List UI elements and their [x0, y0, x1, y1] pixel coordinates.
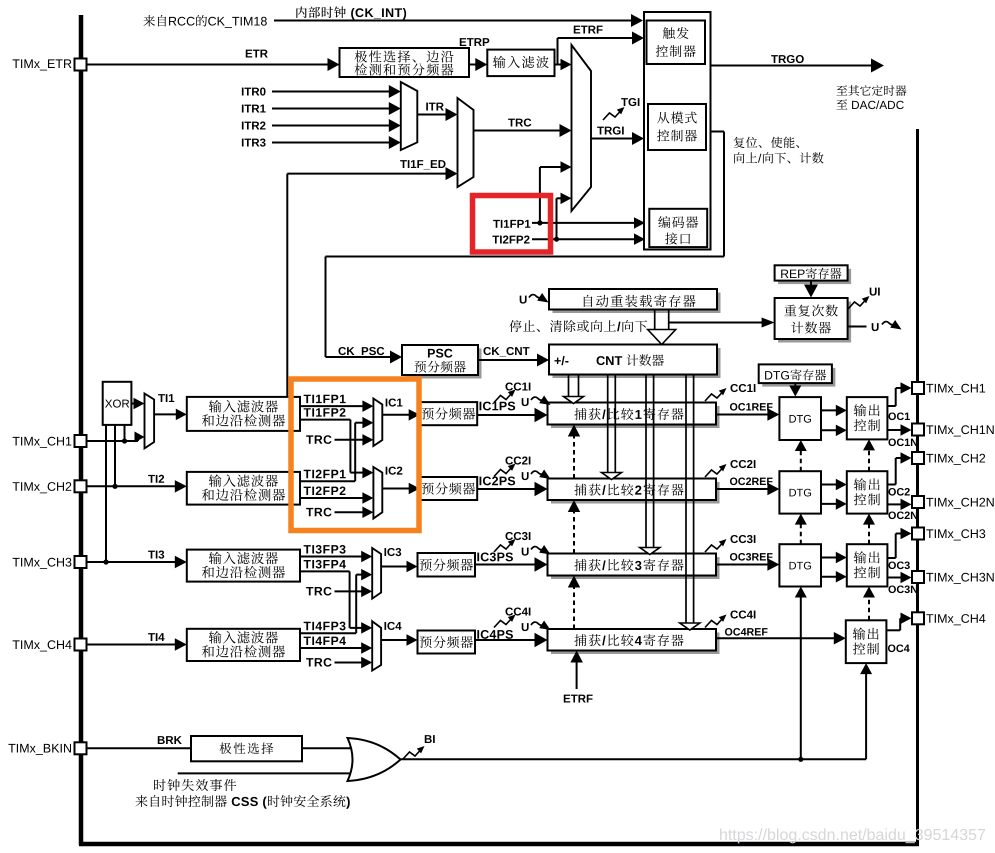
box capture/compare 2 register	[551, 482, 720, 504]
mux IC1 select	[373, 399, 382, 447]
text 接口	[665, 233, 677, 245]
wire TI1	[154, 413, 178, 415]
wire reload to repetition counter	[669, 322, 764, 324]
text 控制器	[656, 45, 668, 57]
wire OC3REF	[716, 564, 769, 566]
label OC3N	[888, 585, 895, 593]
text 自动重装载寄存器	[584, 295, 593, 307]
box encoder interface	[649, 209, 707, 247]
label OC2	[888, 488, 895, 496]
label TI1F_ED	[400, 160, 407, 168]
box capture/compare 4 register	[551, 633, 720, 655]
wire ITR0	[272, 91, 391, 93]
label TIMx_CH1N right	[926, 425, 933, 434]
text 来自时钟控制器CSS	[135, 795, 147, 807]
wire OC2N	[887, 503, 902, 505]
label TRC 2	[306, 508, 313, 516]
mux IC4 select	[372, 621, 381, 670]
box prescaler 4	[418, 631, 476, 654]
wire CK_CNT	[478, 359, 539, 361]
text 输出 2	[854, 478, 866, 490]
wire ETRF top	[558, 37, 635, 39]
text 编码器	[658, 216, 670, 228]
box DTG3	[779, 544, 821, 586]
wire TI2FP1 up	[300, 480, 355, 482]
wire DTG1 out2	[821, 429, 838, 431]
label TIMx_ETR	[13, 59, 20, 68]
label TI2FP1	[304, 470, 311, 478]
label TIMx_CH3N right	[926, 573, 933, 582]
wire IC1PS	[477, 414, 536, 416]
text 预分频器 4	[420, 636, 432, 648]
text 重复次数	[784, 305, 796, 316]
label CC3I right	[730, 535, 738, 543]
label TI1FP1	[304, 395, 311, 403]
dashed arrow CC2 to CC1	[573, 435, 575, 479]
text 捕获/比较3寄存器	[574, 559, 586, 571]
label TI3FP4	[304, 560, 311, 568]
text 预分频器 PSC	[414, 361, 426, 373]
text 至 DAC/ADC	[837, 99, 848, 109]
pad TIMx_CH4 right	[912, 612, 924, 624]
text 停止、清除或向上/向下	[509, 320, 521, 332]
squiggle U cc1	[531, 397, 544, 400]
dashed arrow DTG2 to DTG1	[800, 449, 802, 471]
label TIMx_CH1 right	[926, 384, 933, 393]
wire TRC 3	[335, 590, 364, 592]
wire IC3PS	[475, 564, 537, 566]
dashed arrow OC4 to OC3	[868, 596, 870, 621]
label IC2PS	[480, 477, 482, 486]
arrow REP to repetition counter	[810, 281, 812, 287]
text 时钟失效事件	[154, 779, 166, 791]
label TIMx_CH4 right	[926, 614, 933, 623]
wire BI to OC4	[865, 680, 867, 759]
wire ETR	[87, 64, 330, 66]
label U cc2	[522, 472, 529, 480]
wire TRC	[474, 130, 562, 132]
box input filter/edge detector 1	[187, 397, 300, 431]
hollow arrow CNT to CC3	[645, 375, 647, 548]
label OC1N	[888, 438, 895, 446]
pad TIMx_CH1 left	[75, 435, 87, 447]
wire TI1FP1	[300, 405, 364, 407]
box repetition counter	[778, 302, 851, 343]
squiggle U cc3	[531, 547, 544, 550]
label OC2REF	[730, 478, 737, 486]
label ITR3	[242, 139, 244, 147]
mux IC3 select	[372, 548, 381, 599]
label TI1FP1	[493, 220, 500, 228]
wire IC3 out	[381, 566, 408, 568]
box output control 4	[846, 620, 887, 663]
mux TI1 select	[145, 394, 155, 449]
zigzag CC1I left	[494, 393, 512, 403]
label TI4	[148, 633, 155, 641]
arrow XOR to TI1 mux	[131, 403, 135, 405]
label CC4I right	[730, 610, 738, 618]
wire TI2 input	[87, 485, 177, 487]
text 极性选择、边沿	[355, 50, 367, 62]
text 预分频器 1	[422, 408, 434, 420]
text 输出 4	[853, 628, 865, 640]
wire TRGI	[591, 138, 634, 140]
label ETRF bottom	[564, 695, 570, 703]
junction XOR CH1	[122, 438, 127, 443]
text 输入滤波器 4	[209, 631, 222, 643]
label IC2	[386, 467, 388, 475]
label TIMx_CH2 right	[926, 454, 933, 463]
wire TI3FP4 down	[300, 570, 350, 572]
label CC3I left	[505, 532, 513, 540]
text DTG2	[790, 489, 797, 497]
text DTG寄存器	[765, 371, 772, 379]
zigzag CC3I right	[705, 543, 723, 553]
text REP寄存器	[781, 270, 788, 278]
wire TRC 4	[335, 662, 364, 664]
label OC4	[888, 644, 895, 652]
squiggle U repetition	[882, 322, 895, 325]
wire OC2REF	[716, 488, 769, 490]
text 输出 3	[854, 551, 866, 563]
junction XOR CH2	[112, 484, 117, 489]
text 触发	[663, 27, 675, 39]
label CC1I right	[730, 384, 738, 392]
pad TIMx_CH2 right	[912, 452, 924, 464]
wire TI2FP2 up to mux	[556, 198, 558, 239]
mux IC2 select	[373, 467, 382, 519]
label OC4REF	[725, 628, 732, 636]
wire TI4 input	[87, 644, 177, 646]
text 预分频器 3	[420, 559, 432, 571]
text XOR	[105, 400, 112, 408]
box input filter 输入滤波	[487, 50, 554, 77]
label CK_PSC	[338, 347, 346, 355]
junction TI2FP2	[554, 237, 559, 242]
label 来自RCC的CK_TIM18	[143, 15, 155, 26]
wire OC4REF	[716, 637, 801, 639]
dashed arrow OC3 to OC2	[868, 523, 870, 545]
label TI1FP2	[304, 408, 311, 416]
wire OC3	[887, 557, 895, 559]
label CC1I left	[505, 382, 513, 390]
squiggle U cc4	[531, 622, 544, 625]
wire clock fail to OR	[178, 772, 360, 774]
arrow DTG reg to DTG1	[794, 383, 796, 387]
wire XOR in CH2	[114, 425, 116, 486]
wire DTG3 out2	[821, 576, 838, 578]
zigzag CC4I right	[705, 618, 723, 628]
dashed arrow CC3 to CC2	[573, 510, 575, 554]
label TIMx_CH3 left	[13, 558, 20, 567]
text 输入滤波	[493, 56, 505, 68]
wire ITR3	[272, 142, 391, 144]
text 输入滤波器 2	[209, 474, 222, 486]
watermark	[720, 828, 727, 840]
label IC3PS	[477, 553, 479, 562]
box output control 2	[847, 471, 888, 513]
wire TI4FP4	[300, 647, 363, 649]
wire XOR in CH1	[124, 425, 126, 441]
label CC2I left	[505, 456, 513, 464]
hollow arrow CNT to CC2	[607, 375, 609, 473]
pad TIMx_CH1N right	[912, 424, 924, 436]
pad TIMx_CH3 left	[75, 556, 87, 568]
wire CK_PSC	[326, 356, 393, 358]
box slave mode controller	[648, 104, 706, 150]
zigzag CC2I right	[705, 468, 723, 478]
label UI	[870, 288, 877, 296]
wire OC1N	[887, 429, 902, 431]
wire BI to DTG3	[800, 596, 802, 760]
label TI2	[148, 475, 155, 483]
dashed arrow DTG3 to DTG2	[800, 523, 802, 545]
hollow arrow reload to CNT	[654, 310, 656, 330]
pad TIMx_ETR	[75, 59, 87, 71]
label ETR	[246, 50, 252, 58]
zigzag CC2I left	[494, 467, 512, 477]
wire TI2FP2 to encoder	[532, 238, 636, 240]
box PSC prescaler	[406, 349, 482, 379]
text 捕获/比较1寄存器	[574, 408, 586, 420]
label BRK	[158, 736, 165, 744]
wire TI3 input	[87, 561, 177, 563]
dashed arrow CC4 to CC3	[573, 586, 575, 630]
label TI2FP2	[304, 487, 311, 495]
text 控制 2	[854, 493, 866, 505]
box input filter/edge detector 2	[187, 472, 300, 505]
text 极性选择 BRK	[220, 742, 232, 754]
label TI3	[148, 551, 155, 559]
wire TI1F_ED vertical	[286, 174, 288, 397]
wire BRK to OR	[302, 747, 360, 749]
wire OC1	[887, 405, 895, 407]
gate OR break	[348, 738, 401, 781]
label BI	[425, 735, 432, 743]
arrow ETRF to CC4	[576, 661, 578, 690]
label TRC 3	[306, 587, 313, 595]
wire OC1REF	[716, 414, 769, 416]
text 控制 3	[854, 566, 866, 578]
hollow arrow CNT to CC1	[568, 375, 570, 397]
hollow arrow CNT to CC4	[685, 375, 687, 624]
label IC4	[384, 622, 386, 630]
label OC1REF	[730, 403, 737, 411]
wire DTG2 out1	[821, 484, 838, 486]
junction XOR CH3	[103, 559, 108, 564]
text 输入滤波器 1	[209, 400, 222, 412]
squiggle U cc2	[531, 471, 544, 474]
text 和边沿检测器 4	[202, 645, 214, 657]
label OC2N	[888, 511, 895, 519]
box capture/compare 1 register	[551, 406, 720, 428]
text 预分频器 2	[422, 483, 434, 495]
wire DTG1 out1	[821, 409, 838, 411]
box prescaler 1	[420, 402, 478, 425]
label TIMx_CH2 left	[13, 482, 20, 491]
text 复位、使能、	[734, 137, 745, 148]
wire slave ctrl to CK_PSC path	[711, 131, 725, 133]
box auto-reload register	[553, 293, 721, 314]
frame left border	[79, 15, 84, 845]
zigzag CC4I left	[494, 618, 512, 628]
annotation red box	[473, 196, 551, 253]
box prescaler 2	[420, 477, 478, 500]
label TI4FP4	[304, 637, 311, 645]
mux ITR select	[401, 82, 418, 150]
box DTG2	[779, 471, 821, 513]
pad TIMx_CH2N right	[912, 496, 924, 508]
wire TRC 1	[335, 439, 365, 441]
box CNT counter	[553, 348, 721, 378]
text 控制 1	[854, 419, 866, 431]
label TIMx_CH1 left	[13, 437, 20, 446]
label CC4I left	[505, 607, 513, 615]
pad TIMx_CH3 right	[912, 528, 924, 540]
text CNT 计数器	[597, 356, 605, 365]
text 计数器	[791, 322, 803, 334]
zigzag CC3I left	[494, 543, 512, 553]
label TRC 4	[306, 658, 313, 666]
text DTG1	[790, 415, 797, 423]
dashed arrow OC2 to OC1	[868, 448, 870, 471]
wire filter to ETRF node	[555, 64, 558, 66]
label OC3REF	[730, 553, 737, 561]
wire TI4FP3 up	[300, 632, 356, 634]
label ITR2	[242, 122, 244, 130]
label IC1	[386, 399, 388, 407]
wire TI1FP2 down	[300, 419, 350, 421]
box input filter/edge detector 3	[187, 550, 300, 582]
label CK_CNT	[483, 347, 491, 355]
box controller container	[644, 12, 711, 250]
text 至其它定时器	[837, 85, 848, 95]
label ITR1	[242, 105, 244, 113]
text DTG3	[790, 562, 797, 570]
box XOR	[103, 382, 132, 425]
junction BI DTG column	[798, 757, 803, 762]
box trigger controller	[647, 21, 706, 65]
label TRC 1	[306, 435, 313, 443]
label TIMx_CH4 left	[13, 640, 20, 649]
zigzag BI	[403, 750, 421, 760]
annotation orange box	[291, 379, 419, 531]
junction TI1FP1	[537, 220, 542, 225]
wire ITR1	[272, 108, 391, 110]
box DTG1	[779, 397, 821, 440]
text 检测和预分频器	[355, 63, 367, 75]
label CC2I right	[730, 460, 738, 468]
label ETRF	[574, 26, 580, 34]
label IC3	[384, 548, 386, 556]
text 输入滤波器 3	[209, 552, 222, 564]
pad TIMx_CH3N right	[912, 571, 924, 583]
zigzag TGI	[603, 111, 621, 121]
box input filter/edge detector 4	[187, 629, 300, 661]
wire TI1FP1 up to mux	[539, 167, 541, 223]
box prescaler 3	[418, 553, 476, 577]
label TI3FP3	[304, 545, 311, 553]
wire DTG2 out2	[821, 503, 838, 505]
label TGI	[621, 98, 628, 106]
box REP register	[778, 269, 851, 284]
box polarity select BRK	[191, 736, 302, 761]
wire IC2PS	[477, 488, 536, 490]
label TRC	[508, 119, 515, 127]
wire IC1 out	[382, 414, 410, 416]
mux TRC select	[458, 98, 474, 187]
label TIMx_CH2N right	[926, 498, 933, 507]
label ITR0	[242, 88, 244, 96]
text 从模式	[657, 112, 669, 124]
wire into big mux from ETRF node	[557, 64, 563, 66]
wire TRC 2	[335, 511, 365, 513]
label 内部时钟 (CK_INT)	[296, 6, 306, 18]
label TI4FP3	[304, 622, 311, 630]
wire IC4 out	[381, 639, 408, 641]
wire BI	[401, 758, 867, 760]
box output control 1	[847, 397, 888, 439]
label IC4PS	[477, 630, 479, 639]
frame right border	[916, 129, 919, 844]
label TI1	[158, 394, 165, 402]
box DTG register	[762, 368, 835, 387]
box polarity/edge-detect/prescaler	[340, 48, 470, 77]
wire TI1FP1 to encoder	[532, 222, 636, 224]
label TIMx_BKIN	[8, 744, 15, 753]
label OC3	[888, 561, 895, 569]
text 输出 1	[854, 404, 866, 416]
label U cc4	[522, 623, 529, 631]
box capture/compare 3 register	[551, 557, 720, 579]
text 控制 4	[853, 643, 865, 655]
wire TRGO	[711, 65, 874, 67]
text 和边沿检测器 2	[202, 489, 214, 501]
label TRGO	[771, 55, 778, 63]
label U before reload	[520, 296, 527, 304]
label ITR	[426, 103, 428, 111]
wire OC3N	[887, 577, 902, 579]
wire TI2FP2	[300, 497, 364, 499]
text 向上/向下、计数	[734, 152, 744, 163]
wire OC4	[887, 629, 900, 631]
pad TIMx_CH4 left	[75, 639, 87, 651]
wire ITR	[417, 114, 447, 116]
wire TI1F_ED	[287, 173, 447, 175]
wire TI3FP3	[300, 556, 363, 558]
pad TIMx_CH1 right	[912, 382, 924, 394]
wire XOR in CH3	[105, 425, 107, 562]
text 捕获/比较2寄存器	[574, 484, 586, 496]
label TRGI	[597, 127, 604, 135]
label ETRP	[460, 38, 466, 46]
text 捕获/比较4寄存器	[574, 634, 586, 646]
zigzag UI	[848, 300, 866, 310]
wire CH1 to mux	[87, 440, 138, 442]
wire BKIN	[87, 747, 191, 749]
wire IC2 out	[382, 488, 410, 490]
label U repetition	[872, 323, 879, 331]
wire ETRP	[469, 64, 477, 66]
wire DTG3 out1	[821, 557, 838, 559]
wire CK_INT internal clock	[274, 20, 633, 22]
wire IC4PS	[475, 639, 537, 641]
label IC1PS	[480, 402, 482, 411]
mux trigger select (big)	[572, 45, 592, 211]
text 控制器	[657, 130, 669, 142]
text PSC	[428, 349, 435, 358]
text 和边沿检测器 3	[202, 566, 214, 578]
